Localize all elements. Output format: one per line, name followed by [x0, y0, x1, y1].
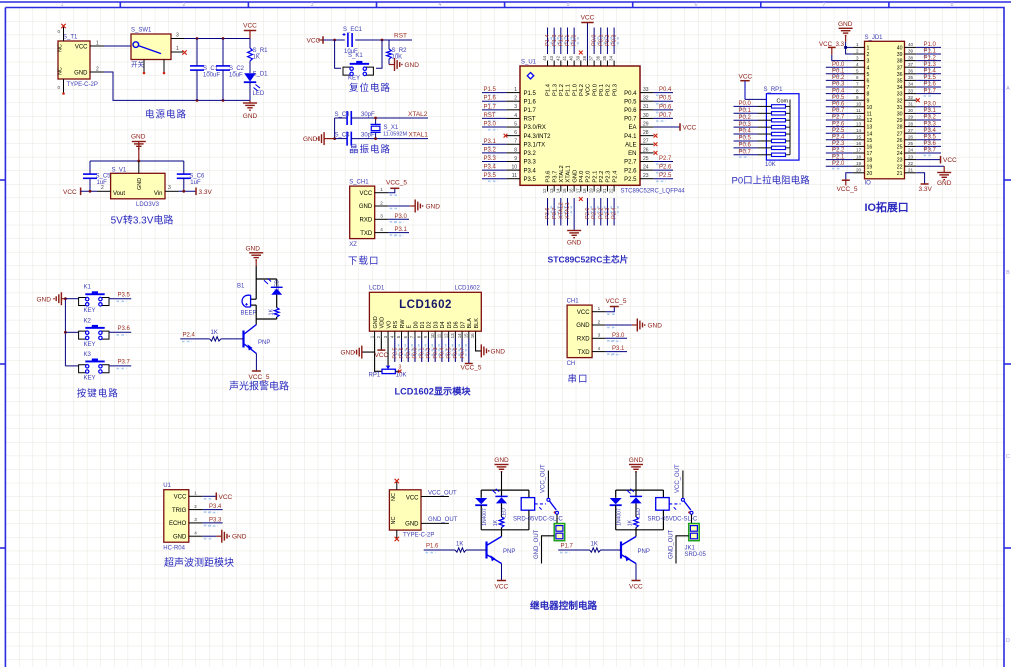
svg-text:声光报警电路: 声光报警电路: [229, 379, 289, 392]
svg-text:14: 14: [856, 128, 862, 133]
svg-text:24: 24: [897, 151, 903, 157]
LCD pin3 to potentiometer wiper: [387, 339, 389, 366]
LCD pin1 to ground and RP1: [362, 339, 375, 353]
svg-text:2: 2: [867, 52, 870, 58]
svg-text:P0.1: P0.1: [598, 34, 604, 46]
svg-text:35: 35: [602, 55, 607, 60]
svg-text:P1.0: P1.0: [572, 34, 578, 46]
svg-text:P1.5: P1.5: [484, 87, 497, 93]
svg-text:15: 15: [867, 138, 873, 144]
svg-text:40: 40: [908, 42, 914, 47]
ground power-circuit: [249, 100, 251, 103]
svg-text:VCC: VCC: [174, 495, 187, 501]
svg-text:KEY: KEY: [84, 375, 96, 381]
svg-text:P0.1: P0.1: [419, 348, 425, 359]
svg-text:P0.4: P0.4: [624, 91, 637, 97]
svg-text:D5: D5: [447, 321, 453, 328]
svg-text:5: 5: [867, 72, 870, 78]
svg-text:S_C6: S_C6: [189, 174, 205, 180]
junction dots power top rail: [196, 37, 199, 40]
svg-text:6: 6: [514, 130, 517, 136]
svg-text:RST: RST: [484, 113, 496, 119]
svg-text:3: 3: [399, 365, 402, 371]
svg-text:SRD-05VDC-SL-C: SRD-05VDC-SL-C: [648, 516, 698, 522]
svg-text:31: 31: [643, 104, 649, 110]
svg-text:P0.1: P0.1: [599, 84, 605, 96]
svg-text:P0.0: P0.0: [592, 84, 598, 96]
svg-text:P2.6: P2.6: [832, 121, 845, 127]
svg-text:按键电路: 按键电路: [77, 388, 119, 400]
buzzer B1 BEEP: [237, 279, 257, 319]
svg-text:P0.3: P0.3: [832, 82, 845, 88]
svg-text:13: 13: [450, 333, 455, 338]
svg-text:ECHO: ECHO: [169, 521, 187, 527]
svg-text:KEY: KEY: [84, 342, 96, 348]
svg-text:VCC: VCC: [243, 23, 257, 30]
svg-text:Vin: Vin: [154, 191, 163, 197]
svg-text:GND_OUT: GND_OUT: [668, 529, 674, 559]
svg-text:21: 21: [908, 168, 914, 173]
svg-text:4: 4: [856, 62, 859, 67]
IO left wires P0.x P2.x: [826, 62, 853, 169]
svg-text:开关: 开关: [131, 60, 145, 69]
svg-text:P3.5: P3.5: [484, 173, 497, 179]
svg-text:GND: GND: [137, 178, 143, 190]
svg-text:P3.3: P3.3: [484, 156, 497, 162]
svg-text:P2.7: P2.7: [406, 348, 412, 359]
svg-text:17: 17: [856, 148, 862, 153]
wire relay top node: [481, 489, 529, 491]
svg-text:1K: 1K: [493, 519, 499, 526]
svg-text:E: E: [407, 325, 413, 329]
svg-text:38: 38: [908, 55, 914, 60]
svg-text:P0.2: P0.2: [832, 75, 845, 81]
wire ultrasonic GND: [202, 535, 216, 537]
svg-text:11: 11: [437, 333, 442, 338]
wire bus to K3: [65, 365, 78, 367]
resistor relay LED 1K: [634, 517, 639, 528]
svg-text:PNP: PNP: [638, 549, 650, 555]
svg-text:P3.4: P3.4: [209, 504, 222, 510]
svg-text:P3.2: P3.2: [924, 115, 937, 121]
svg-text:P3.3: P3.3: [924, 121, 937, 127]
svg-text:P3.3: P3.3: [209, 517, 222, 523]
LCD pin16 BLK to ground: [476, 339, 482, 351]
svg-text:TYPE-C-2P: TYPE-C-2P: [67, 82, 98, 88]
svg-text:P2.0: P2.0: [585, 207, 591, 219]
ground download: [410, 205, 415, 207]
svg-text:TXD: TXD: [578, 350, 591, 356]
svg-text:29: 29: [643, 121, 649, 127]
svg-text:37: 37: [897, 65, 903, 71]
diode 1N4007: [475, 490, 488, 530]
svg-text:P1.3: P1.3: [924, 62, 937, 68]
svg-text:K3: K3: [84, 352, 92, 358]
svg-text:P1.7: P1.7: [924, 88, 937, 94]
svg-text:11.0592M: 11.0592M: [383, 131, 407, 137]
svg-text:11: 11: [512, 173, 517, 179]
svg-text:LED: LED: [253, 91, 265, 97]
EA to VCC: [654, 87, 697, 181]
svg-text:超声波测距模块: 超声波测距模块: [164, 556, 234, 569]
svg-text:10: 10: [511, 164, 517, 170]
svg-text:12: 12: [867, 118, 873, 124]
connector CH1 serial: [567, 299, 617, 368]
wire K2 to net P3.6: [109, 331, 131, 333]
svg-text:2: 2: [96, 67, 99, 73]
svg-text:29: 29: [897, 118, 903, 124]
svg-text:30: 30: [908, 108, 914, 113]
svg-text:10: 10: [856, 102, 862, 107]
svg-text:S_D1: S_D1: [253, 72, 269, 78]
svg-text:18: 18: [582, 188, 587, 193]
svg-text:P0.7: P0.7: [624, 117, 637, 123]
svg-text:P2.2: P2.2: [598, 207, 604, 219]
svg-text:2: 2: [856, 49, 859, 54]
svg-text:KEY: KEY: [84, 308, 96, 314]
svg-text:VO: VO: [386, 320, 392, 329]
svg-text:TRIG: TRIG: [172, 508, 187, 514]
wire pin20 to VCC_5: [846, 173, 853, 180]
svg-text:RST: RST: [524, 117, 536, 123]
svg-text:NC: NC: [391, 493, 397, 501]
svg-text:P0.2: P0.2: [606, 84, 612, 96]
svg-text:P3.1: P3.1: [612, 346, 625, 352]
svg-text:RW: RW: [400, 319, 406, 329]
svg-text:P3.7: P3.7: [924, 148, 937, 154]
svg-text:7: 7: [822, 2, 825, 8]
svg-text:D7: D7: [460, 321, 466, 328]
svg-text:S_U1: S_U1: [521, 60, 537, 66]
net label P3.1 download: [388, 232, 409, 234]
svg-text:16: 16: [470, 333, 475, 338]
svg-text:31: 31: [908, 102, 914, 107]
svg-text:NC: NC: [58, 67, 64, 75]
wire bus to K1: [65, 298, 78, 300]
svg-text:P2.5: P2.5: [832, 128, 845, 134]
svg-text:晶振电路: 晶振电路: [349, 144, 391, 156]
svg-text:P0.7: P0.7: [460, 348, 466, 359]
svg-text:17: 17: [575, 188, 580, 193]
svg-text:12: 12: [443, 333, 448, 338]
svg-text:25: 25: [643, 156, 649, 162]
resistor S_R1 1K: [248, 39, 269, 62]
svg-text:P0.3: P0.3: [433, 348, 439, 359]
svg-text:19: 19: [589, 188, 594, 193]
svg-text:26: 26: [908, 135, 914, 140]
svg-text:P3.7: P3.7: [552, 171, 558, 183]
svg-text:XTAL1: XTAL1: [409, 132, 429, 139]
svg-text:4: 4: [867, 65, 870, 71]
svg-text:CH: CH: [567, 361, 576, 367]
svg-text:43: 43: [549, 55, 554, 60]
svg-text:D3: D3: [433, 321, 439, 328]
net label P3.0 serial: [606, 337, 627, 339]
svg-text:继电器控制电路: 继电器控制电路: [530, 600, 598, 612]
svg-text:12: 12: [856, 115, 862, 120]
svg-text:P3.1: P3.1: [395, 227, 408, 233]
svg-text:22: 22: [609, 188, 614, 193]
svg-text:VCC: VCC: [219, 494, 233, 501]
svg-text:EN: EN: [628, 151, 636, 157]
svg-text:18: 18: [867, 158, 873, 164]
wire crystal left vertical: [334, 118, 336, 139]
svg-text:100uF: 100uF: [203, 73, 220, 79]
svg-text:37: 37: [908, 62, 914, 67]
connector S_CH1 XZ download port: [349, 180, 399, 249]
svg-text:P1.2: P1.2: [559, 84, 565, 96]
svg-text:1uF: 1uF: [97, 180, 108, 186]
svg-text:39: 39: [908, 49, 914, 54]
svg-text:XTAL2: XTAL2: [559, 165, 565, 182]
svg-text:16: 16: [867, 145, 873, 151]
button K2 KEY: [79, 318, 109, 348]
svg-text:P2.7: P2.7: [832, 115, 845, 121]
svg-text:P4.1: P4.1: [624, 134, 637, 140]
svg-text:P0.0: P0.0: [832, 62, 845, 68]
svg-text:P2.6: P2.6: [399, 348, 405, 359]
svg-text:NC: NC: [391, 517, 397, 525]
svg-text:P3.4: P3.4: [924, 128, 937, 134]
transistor PNP relay: [621, 537, 650, 564]
svg-text:40: 40: [897, 46, 903, 52]
svg-text:TYPE-C-2P: TYPE-C-2P: [403, 533, 434, 539]
svg-text:VCC_5: VCC_5: [837, 186, 858, 193]
svg-text:P0.0: P0.0: [592, 34, 598, 46]
svg-text:P1.7: P1.7: [524, 108, 537, 114]
svg-text:GND: GND: [576, 323, 590, 329]
svg-text:13: 13: [549, 188, 554, 193]
svg-text:VCC: VCC: [495, 584, 509, 591]
svg-text:P2.3: P2.3: [605, 207, 611, 219]
svg-text:GND: GND: [567, 240, 582, 247]
svg-text:37: 37: [589, 55, 594, 60]
svg-text:16: 16: [856, 141, 862, 146]
svg-text:P0.7: P0.7: [739, 149, 752, 155]
svg-text:S_EC1: S_EC1: [343, 27, 363, 33]
svg-text:GND: GND: [572, 170, 578, 183]
svg-text:C: C: [1006, 454, 1010, 460]
svg-text:31: 31: [897, 105, 903, 111]
svg-text:P0.6: P0.6: [832, 102, 845, 108]
svg-text:S_V1: S_V1: [112, 168, 127, 174]
svg-text:P1.0: P1.0: [572, 84, 578, 96]
svg-text:P2.0: P2.0: [586, 171, 592, 183]
svg-text:4: 4: [194, 531, 197, 536]
svg-text:38: 38: [897, 59, 903, 65]
svg-text:32: 32: [897, 98, 903, 104]
svg-text:28: 28: [908, 121, 914, 126]
svg-text:35: 35: [908, 75, 914, 80]
svg-text:13: 13: [867, 125, 873, 131]
wire serial VCC_5: [606, 307, 615, 312]
ground LCD right: [480, 344, 482, 357]
svg-text:STC89C52RC_LQFP44: STC89C52RC_LQFP44: [621, 189, 686, 195]
svg-text:VCC_OUT: VCC_OUT: [428, 490, 457, 496]
svg-text:30pF: 30pF: [361, 132, 375, 138]
svg-text:BLA: BLA: [467, 318, 473, 329]
svg-text:1N4007: 1N4007: [617, 508, 623, 526]
svg-text:P1.3: P1.3: [552, 34, 558, 46]
capacitor S_EC1 10uF: [343, 27, 363, 55]
svg-text:P0.4: P0.4: [659, 87, 672, 93]
svg-text:P2.4: P2.4: [183, 333, 196, 339]
svg-text:GND: GND: [246, 245, 261, 252]
svg-text:7: 7: [856, 82, 859, 87]
svg-text:23: 23: [643, 173, 649, 179]
svg-text:44: 44: [542, 55, 547, 60]
svg-text:XTAL1: XTAL1: [566, 165, 572, 182]
svg-text:LDO3V3: LDO3V3: [136, 202, 160, 208]
svg-text:GND: GND: [243, 113, 258, 120]
power port VCC MCU: [545, 15, 618, 61]
svg-text:P2.7: P2.7: [659, 156, 672, 162]
svg-text:10uF: 10uF: [229, 73, 243, 79]
svg-text:3: 3: [856, 55, 859, 60]
svg-text:P0.6: P0.6: [453, 348, 459, 359]
svg-text:4: 4: [598, 346, 601, 351]
wire bus to K2: [65, 331, 78, 333]
svg-text:P0.5: P0.5: [446, 348, 452, 359]
svg-text:1: 1: [60, 2, 63, 8]
svg-text:VCC_5: VCC_5: [249, 374, 270, 381]
svg-text:30pF: 30pF: [361, 112, 375, 118]
svg-text:K2: K2: [84, 318, 92, 324]
relay output connector: [554, 524, 565, 541]
svg-text:P0.7: P0.7: [659, 113, 672, 119]
wire S_T1 VCC to switch: [104, 45, 131, 47]
svg-text:1K: 1K: [253, 55, 260, 61]
IO pin21 3.3V: [916, 173, 924, 184]
svg-text:7: 7: [867, 85, 870, 91]
svg-text:P1.3: P1.3: [552, 84, 558, 96]
svg-text:16: 16: [569, 188, 574, 193]
svg-text:3: 3: [168, 185, 171, 191]
svg-text:VCC: VCC: [581, 15, 595, 22]
wire reset top rail: [323, 39, 345, 41]
LED alarm: [264, 278, 283, 307]
wire relay top node: [616, 489, 664, 491]
svg-text:P0.5: P0.5: [624, 99, 637, 105]
key bus wire: [64, 299, 66, 366]
svg-text:15: 15: [464, 333, 469, 338]
svg-text:VCC: VCC: [75, 45, 88, 51]
wire K3 to net P3.7: [109, 365, 131, 367]
LCD module LCD1 LCD1602: [369, 286, 481, 339]
svg-text:P3.5: P3.5: [524, 177, 537, 183]
svg-text:30: 30: [897, 112, 903, 118]
svg-text:10K: 10K: [392, 55, 403, 61]
svg-text:6: 6: [694, 2, 697, 8]
port VCC_OUT supply: [421, 496, 449, 498]
IO pin22 GND: [916, 165, 944, 167]
svg-text:XTAL1: XTAL1: [565, 202, 571, 219]
svg-text:P3.3: P3.3: [524, 160, 537, 166]
svg-text:P0.0: P0.0: [413, 348, 419, 359]
svg-text:KEY: KEY: [348, 76, 360, 82]
svg-text:4: 4: [380, 227, 383, 232]
svg-text:36: 36: [908, 69, 914, 74]
resistor relay LED 1K: [499, 517, 504, 528]
svg-text:35: 35: [897, 79, 903, 85]
svg-text:P1.6: P1.6: [426, 544, 439, 550]
svg-text:CH1: CH1: [567, 299, 580, 305]
svg-text:P1.2: P1.2: [558, 34, 564, 46]
svg-text:S_C3: S_C3: [335, 112, 351, 118]
svg-text:S_X1: S_X1: [384, 125, 399, 131]
power port VCC_5 alarm: [255, 354, 257, 372]
svg-text:36: 36: [897, 72, 903, 78]
svg-text:5: 5: [856, 69, 859, 74]
svg-text:P0.3: P0.3: [612, 34, 618, 46]
svg-text:VCC: VCC: [629, 584, 643, 591]
svg-text:LED: LED: [275, 280, 281, 291]
svg-text:TXD: TXD: [360, 231, 373, 237]
svg-text:1: 1: [380, 187, 383, 192]
button S_K1 KEY: [343, 53, 373, 82]
svg-text:15: 15: [562, 188, 567, 193]
LCD data wires and net labels: [392, 339, 465, 362]
svg-text:1K: 1K: [269, 308, 275, 315]
svg-text:24: 24: [908, 148, 914, 153]
net label P2.4 and base resistor 1K: [180, 338, 209, 340]
svg-text:3: 3: [867, 59, 870, 65]
capacitor S_C3 30pF: [335, 111, 429, 125]
wire serial GND: [606, 324, 632, 326]
svg-text:P0.3: P0.3: [612, 84, 618, 96]
svg-text:VCC_OUT: VCC_OUT: [675, 464, 681, 493]
svg-text:GND: GND: [405, 62, 420, 69]
svg-text:S_SW1: S_SW1: [131, 28, 152, 34]
power port VCC_5 IO: [842, 179, 850, 181]
svg-text:VCC: VCC: [360, 191, 373, 197]
svg-text:PNP: PNP: [503, 549, 515, 555]
svg-text:P1.6: P1.6: [924, 82, 937, 88]
connector U1 HC-R04 ultrasonic: [163, 483, 213, 552]
svg-text:GND: GND: [173, 534, 187, 540]
svg-text:P0.5: P0.5: [739, 136, 752, 142]
svg-text:33: 33: [908, 88, 914, 93]
svg-text:P1.0: P1.0: [924, 42, 937, 48]
svg-text:VCC: VCC: [406, 496, 419, 502]
svg-text:GND: GND: [648, 323, 663, 330]
IO right wires P1.x P3.x: [916, 42, 941, 155]
wire LDO top rail: [90, 160, 184, 162]
svg-text:27: 27: [643, 139, 649, 145]
wire VCC to RP1 common: [745, 98, 766, 100]
svg-text:3: 3: [176, 33, 179, 39]
relay output connector: [685, 524, 707, 559]
power port VCC ultrasonic: [215, 493, 217, 501]
svg-text:1: 1: [194, 491, 197, 496]
net label P1.6 and relay base resistor: [424, 549, 455, 551]
svg-text:2: 2: [194, 504, 197, 509]
svg-text:1: 1: [598, 306, 601, 311]
svg-text:GND: GND: [405, 522, 419, 528]
svg-text:P0.2: P0.2: [605, 34, 611, 46]
svg-text:P0.4: P0.4: [832, 88, 845, 94]
svg-text:3.3V: 3.3V: [919, 186, 933, 193]
svg-text:5V转3.3V电路: 5V转3.3V电路: [111, 214, 174, 227]
svg-text:P3.0: P3.0: [612, 333, 625, 339]
svg-text:1: 1: [96, 41, 99, 47]
svg-text:STC89C52RC主芯片: STC89C52RC主芯片: [548, 254, 629, 265]
svg-text:1: 1: [867, 46, 870, 52]
svg-text:VCC: VCC: [683, 125, 697, 132]
svg-text:P3.7: P3.7: [552, 207, 558, 219]
svg-text:8: 8: [856, 88, 859, 93]
wire relay bottom node: [616, 529, 664, 531]
